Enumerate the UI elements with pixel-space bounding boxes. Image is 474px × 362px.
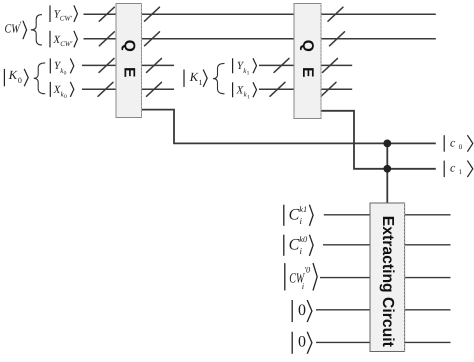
- svg-text:Q: Q: [299, 40, 316, 52]
- junction dot on c0: [383, 140, 391, 148]
- svg-text:1: 1: [247, 95, 250, 101]
- label CW': [5, 19, 27, 39]
- svg-text:1: 1: [459, 168, 463, 176]
- svg-text:0: 0: [298, 302, 306, 319]
- wire Ci_k0 left: [323, 244, 370, 246]
- wire Ci_k1 left: [324, 214, 370, 216]
- svg-text:0: 0: [64, 71, 67, 77]
- ket Ci_k0 input: [284, 234, 313, 256]
- bus slash row2 post-U2: [330, 32, 345, 46]
- wire ancilla0a right: [405, 309, 451, 311]
- wire row2 qubit X_CW': [84, 38, 436, 40]
- svg-text:0: 0: [64, 94, 67, 100]
- label K1 ket: [184, 70, 207, 87]
- ket X_k1: [233, 82, 257, 100]
- ket c0 output: [444, 135, 473, 152]
- svg-text:0: 0: [459, 143, 463, 151]
- bus slash row1 pre-U1: [99, 7, 114, 21]
- bus slash row4 pre-U1: [98, 82, 113, 96]
- ket zero ancilla b: [292, 332, 312, 354]
- brace K0 group: [34, 63, 46, 94]
- svg-text:K: K: [8, 68, 18, 82]
- QE box U1: [116, 4, 142, 118]
- svg-text:1: 1: [247, 71, 250, 77]
- svg-text:E: E: [299, 67, 316, 77]
- wire CWi0 left: [320, 277, 370, 279]
- ket Y_k1: [233, 58, 257, 76]
- ket zero ancilla a: [292, 300, 312, 322]
- bus slash row3 post-U1: [147, 58, 162, 72]
- ket c1 output: [444, 161, 473, 178]
- bus slash row4 post-U2: [321, 82, 336, 96]
- wire row3 right qubit Y_k1: [259, 64, 352, 66]
- wire ancilla0a left: [316, 309, 370, 311]
- svg-text:Extracting Circuit: Extracting Circuit: [379, 216, 396, 348]
- wire row4 left qubit X_k0: [82, 88, 174, 90]
- svg-text:0: 0: [18, 76, 22, 85]
- ket Ci_k1 input: [284, 204, 313, 226]
- ket CWi'0 input: [285, 263, 317, 291]
- wire row1 qubit Y_CW': [84, 13, 436, 15]
- wire ancilla0b right: [405, 341, 451, 343]
- svg-text:′0: ′0: [304, 264, 311, 274]
- wire connector U2 to c1: [321, 111, 436, 169]
- ket X_k0: [50, 82, 74, 100]
- wire row3 left qubit Y_k0: [82, 64, 174, 66]
- svg-text:′: ′: [20, 19, 22, 29]
- svg-text:CW: CW: [5, 21, 21, 35]
- extracting circuit box U3: [370, 203, 405, 352]
- bus slash row2 pre-U1: [99, 32, 114, 46]
- ket Y_k0: [50, 58, 74, 76]
- bus slash row4 post-U1: [147, 82, 162, 96]
- svg-text:1: 1: [199, 78, 203, 87]
- wire ancilla0b left: [316, 341, 370, 343]
- svg-text:0: 0: [298, 334, 306, 351]
- svg-text:k1: k1: [299, 204, 307, 214]
- wire junction vertical to extracting circuit: [386, 143, 388, 203]
- svg-text:CW′: CW′: [60, 40, 72, 48]
- svg-text:E: E: [120, 67, 137, 77]
- svg-text:C: C: [289, 237, 300, 254]
- wire row4 right qubit X_k1: [259, 88, 352, 90]
- junction dot on c1: [383, 165, 391, 173]
- svg-text:k0: k0: [299, 234, 308, 244]
- ket Y_CW': [50, 5, 77, 22]
- svg-text:c: c: [450, 135, 456, 149]
- QE box U2: [294, 4, 321, 119]
- wire connector U1 to c0: [142, 110, 436, 144]
- bus slash row4 pre-U2: [270, 82, 285, 96]
- wire Ci_k0 right: [405, 244, 451, 246]
- svg-text:c: c: [450, 161, 456, 175]
- label K0 ket: [4, 68, 28, 86]
- svg-text:Q: Q: [120, 40, 137, 52]
- bus slash row3 pre-U2: [274, 58, 289, 72]
- ket X_CW': [50, 31, 77, 48]
- wire Ci_k1 right: [405, 214, 451, 216]
- brace K1 group: [213, 63, 225, 93]
- bus slash row1 post-U1: [145, 7, 160, 21]
- svg-text:C: C: [289, 207, 300, 224]
- brace CW group: [31, 15, 42, 45]
- svg-text:K: K: [189, 70, 199, 84]
- bus slash row3 post-U2: [323, 58, 338, 72]
- bus slash row3 pre-U1: [99, 58, 114, 72]
- bus slash row2 post-U1: [145, 32, 160, 46]
- svg-text:CW′: CW′: [60, 15, 73, 23]
- bus slash row1 post-U2: [328, 7, 343, 21]
- wire CWi0 right: [405, 277, 451, 279]
